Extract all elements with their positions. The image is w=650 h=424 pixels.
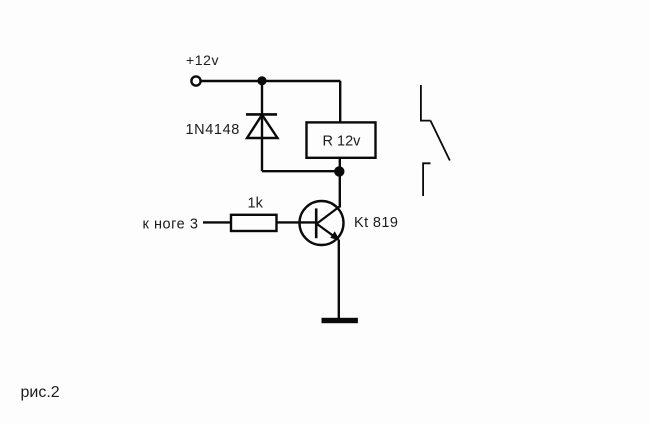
relay contact SW bottom lead xyxy=(423,163,430,196)
node +12v terminal xyxy=(191,76,200,85)
wire top rail from terminal to relay branch xyxy=(201,80,341,82)
junction top of diode xyxy=(257,76,266,85)
svg-text:рис.2: рис.2 xyxy=(21,384,60,401)
transistor Q1 collector stroke xyxy=(317,206,340,224)
diode D1 1N4148 triangle xyxy=(247,115,278,138)
wire input to resistor xyxy=(203,221,231,223)
transistor Q1 emitter stroke xyxy=(317,224,339,240)
svg-text:к ноге 3: к ноге 3 xyxy=(143,217,199,233)
relay contact SW top lead xyxy=(421,85,431,121)
svg-text:+12v: +12v xyxy=(186,52,219,68)
transistor Q1 base bar xyxy=(315,208,318,238)
relay K1 body xyxy=(307,122,376,157)
wire diode branch vertical xyxy=(261,81,263,171)
resistor R1 body xyxy=(231,215,277,231)
ground xyxy=(322,318,358,323)
svg-text:1N4148: 1N4148 xyxy=(186,122,240,138)
junction below relay xyxy=(334,166,344,176)
wire diode bottom to relay bottom xyxy=(262,170,340,172)
wire relay top vertical xyxy=(339,81,341,123)
wire relay bottom to collector xyxy=(339,158,341,208)
relay contact SW movable arm xyxy=(431,121,450,161)
transistor Q1 circle xyxy=(300,201,344,245)
wire emitter to ground xyxy=(338,240,340,319)
diode D1 1N4148 cathode bar xyxy=(246,113,277,116)
transistor Q1 emitter arrowhead xyxy=(330,231,339,240)
svg-text:1k: 1k xyxy=(248,196,264,212)
svg-text:R 12v: R 12v xyxy=(323,134,362,150)
svg-text:Kt 819: Kt 819 xyxy=(354,215,398,231)
wire base from resistor xyxy=(277,221,317,223)
